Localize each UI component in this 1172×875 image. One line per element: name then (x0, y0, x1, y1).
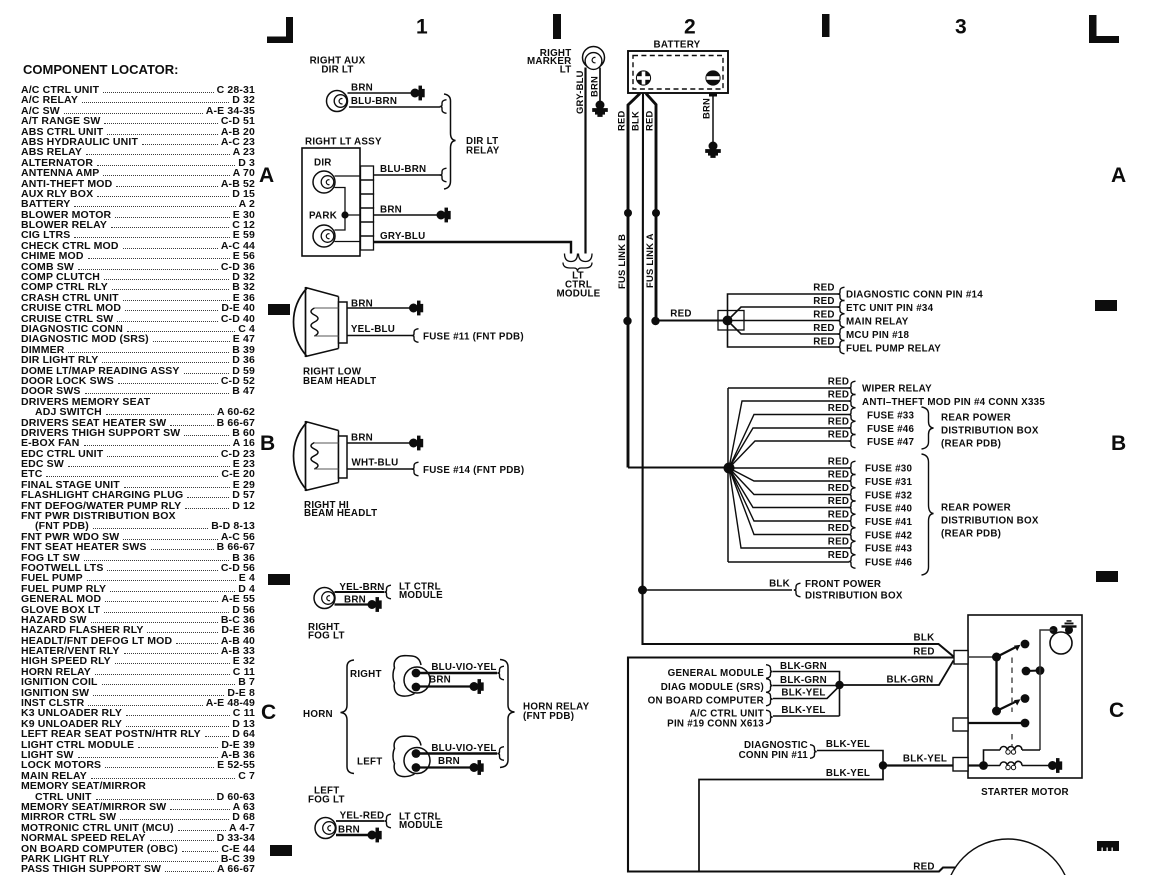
svg-text:STARTER MOTOR: STARTER MOTOR (981, 787, 1069, 798)
grid tick right BC (1096, 571, 1118, 582)
connector strip right lt assy pins (361, 166, 374, 250)
svg-text:WHT-BLU: WHT-BLU (352, 458, 399, 469)
wire BLK from battery to starter (630, 94, 954, 657)
wire YEL-BRN from right fog lt (335, 582, 385, 593)
svg-text:BLK-GRN: BLK-GRN (780, 675, 827, 686)
node dot on fus link B at feed row (623, 317, 631, 325)
svg-text:BRN: BRN (438, 756, 460, 767)
connector hook fuel pump relay (838, 340, 845, 354)
svg-text:BLK-YEL: BLK-YEL (826, 739, 870, 750)
connector hook mcu (838, 327, 845, 341)
wire BLK-GRN main to starter (840, 661, 954, 686)
ground at marker BRN wire end (593, 101, 607, 116)
svg-text:RED: RED (828, 457, 849, 468)
svg-text:MODULE: MODULE (399, 820, 443, 831)
svg-text:BLK: BLK (914, 633, 935, 644)
connector hook BLU-BRN assy end (440, 168, 447, 182)
wire BRN from right aux dir lt (348, 83, 412, 94)
lamp RIGHT MARKER LT label (527, 48, 572, 76)
solenoid coil upper (984, 746, 1041, 766)
bulb PARK in right lt assy (313, 225, 335, 247)
wire RED fusible link A from battery (644, 94, 657, 318)
label RIGHT LOW BEAM HEADLT (303, 367, 376, 388)
wire RED to wiper relay (728, 377, 849, 389)
battery minus terminal (705, 70, 720, 85)
svg-text:REAR POWER: REAR POWER (941, 413, 1011, 424)
label RIGHT HI BEAM HEADLT (304, 500, 377, 519)
label RIGHT FOG LT (308, 622, 345, 642)
svg-text:B: B (1111, 432, 1126, 455)
svg-text:FUS LINK A: FUS LINK A (644, 233, 655, 288)
connector hook front pdb (794, 583, 801, 597)
svg-text:WIPER RELAY: WIPER RELAY (862, 384, 932, 395)
wire internal park bulb to connector (335, 241, 361, 243)
node dot fus link A end (651, 317, 659, 325)
svg-text:REAR POWER: REAR POWER (941, 503, 1011, 514)
svg-text:BLK-GRN: BLK-GRN (887, 675, 934, 686)
svg-text:BRN: BRN (589, 76, 600, 97)
lamp RIGHT FOG LT bulb (314, 588, 335, 609)
ground inside starter top (1062, 620, 1077, 628)
svg-text:FUSE #11 (FNT PDB): FUSE #11 (FNT PDB) (423, 332, 524, 343)
svg-text:FRONT POWER: FRONT POWER (805, 579, 881, 590)
node coil junction (979, 761, 988, 770)
label A/C CTRL UNIT PIN #19 CONN X613 (667, 709, 764, 730)
battery outline (628, 51, 728, 93)
wire BLK-YEL on board computer (773, 688, 838, 699)
wire BRN left horn (420, 756, 470, 768)
svg-text:RED: RED (828, 496, 849, 507)
wire RED to fuse 40 (729, 468, 849, 508)
node front pdb junction on BLK (638, 586, 647, 595)
svg-text:RED: RED (813, 310, 834, 321)
svg-text:FUSE #40: FUSE #40 (865, 504, 912, 515)
bulb DIR in right lt assy (313, 171, 335, 193)
node PARK junction dot (341, 211, 348, 218)
svg-text:RED: RED (644, 110, 655, 131)
wire BLU-BRN from right lt assy (374, 164, 441, 175)
svg-text:FUSE #43: FUSE #43 (865, 544, 912, 555)
svg-text:FUEL PUMP RELAY: FUEL PUMP RELAY (846, 344, 941, 355)
wire BLU-BRN from right aux dir lt (349, 96, 440, 107)
svg-text:BLU-BRN: BLU-BRN (380, 164, 426, 175)
ground at low beam BRN end (410, 301, 423, 314)
connector hook fuse 14 (412, 462, 419, 476)
svg-text:3: 3 (955, 16, 967, 39)
svg-text:FUSE #47: FUSE #47 (867, 437, 914, 448)
grid tick top 2 (822, 14, 830, 37)
wire internal dir bulb to connector (335, 175, 361, 177)
alternator circle bottom (945, 839, 1071, 875)
wire BLK-YEL main to starter (883, 754, 953, 766)
svg-text:ANTI–THEFT MOD PIN #4 CONN X33: ANTI–THEFT MOD PIN #4 CONN X335 (862, 397, 1045, 408)
svg-text:LT: LT (560, 65, 572, 76)
svg-text:GENERAL MODULE: GENERAL MODULE (668, 668, 765, 679)
svg-text:DIR: DIR (314, 158, 332, 169)
connector hook general module (766, 665, 773, 679)
wire RED to fuse 33 (729, 403, 849, 468)
svg-text:RIGHT: RIGHT (350, 669, 382, 680)
label DIAGNOSTIC CONN PIN #11 (739, 740, 809, 761)
connector hook on board computer (766, 692, 773, 706)
svg-text:ETC UNIT PIN #34: ETC UNIT PIN #34 (846, 303, 934, 314)
svg-text:BRN: BRN (380, 205, 402, 216)
brace DIR LT RELAY (444, 94, 500, 189)
wire BLU-VIO-YEL right horn (420, 662, 497, 673)
wire RED to anti-theft mod (729, 390, 849, 469)
solenoid switch arm lower (992, 694, 1029, 715)
wire connector3 into box (968, 764, 980, 766)
svg-text:FUSE #31: FUSE #31 (865, 477, 912, 488)
svg-text:FUS LINK B: FUS LINK B (616, 234, 627, 289)
wire BLK-YEL a/c ctrl unit (773, 705, 840, 716)
wire BLK to front power distribution box (643, 579, 793, 591)
headlight RIGHT HI BEAM symbol (294, 421, 348, 491)
wire RED to fuse 47 (729, 430, 849, 469)
svg-text:BLK-YEL: BLK-YEL (826, 768, 870, 779)
horn RIGHT symbol (393, 656, 430, 697)
wire GRY-BLU from right marker lt (574, 68, 586, 254)
wire RED to fuse 31 (729, 468, 849, 481)
label LT CTRL MODULE right fog (399, 582, 443, 602)
label LEFT FOG LT (308, 786, 345, 806)
svg-text:RED: RED (828, 403, 849, 414)
wire internal park link (335, 188, 361, 231)
connector hook left fog to lt ctrl module (384, 814, 391, 828)
ground right horn (470, 680, 483, 693)
connector hook fuse 11 (412, 329, 419, 343)
svg-text:CONN PIN #11: CONN PIN #11 (739, 750, 809, 761)
svg-text:RED: RED (828, 550, 849, 561)
svg-text:RED: RED (828, 377, 849, 388)
svg-text:BLK-YEL: BLK-YEL (903, 754, 947, 765)
label FRONT POWER DISTRIBUTION BOX (805, 579, 903, 602)
brace horn left (341, 660, 355, 774)
wire BRN from right lt assy (374, 205, 438, 216)
svg-text:(FNT PDB): (FNT PDB) (523, 711, 574, 722)
grid tick top 1 (553, 14, 561, 39)
svg-text:MODULE: MODULE (399, 590, 443, 601)
svg-text:DIR LT: DIR LT (321, 65, 353, 76)
node main relay fan junction (723, 316, 733, 326)
wire BLK-GRN diag module (773, 675, 838, 686)
lamp RIGHT AUX DIR LT label (310, 56, 366, 76)
wire RED to diagnostic conn pin 14 (728, 283, 839, 321)
wire RED to fuse 43 (729, 468, 849, 548)
svg-text:RED: RED (828, 523, 849, 534)
svg-text:GRY-BLU: GRY-BLU (380, 231, 425, 242)
svg-text:MCU PIN #18: MCU PIN #18 (846, 330, 909, 341)
horn LEFT symbol (393, 736, 430, 777)
lamp RIGHT AUX DIR LT bulb (327, 91, 348, 112)
wire RED to fuse 46b (728, 550, 849, 562)
node fuse fan junction (724, 463, 735, 474)
wire RED to mcu pin 18 (728, 321, 839, 335)
node blk-yel junction (879, 761, 887, 769)
starter connector 2 (953, 718, 968, 731)
svg-text:FUSE #42: FUSE #42 (865, 531, 912, 542)
svg-text:RED: RED (828, 470, 849, 481)
svg-text:FOG LT: FOG LT (308, 631, 345, 642)
ground left horn (470, 761, 483, 774)
ground at right fog BRN end (368, 598, 381, 611)
wire RED to fuse 42 (729, 468, 849, 535)
svg-text:PARK: PARK (309, 211, 337, 222)
svg-text:RED: RED (616, 110, 627, 131)
lamp RIGHT MARKER LT bulb (583, 47, 605, 70)
connector hook diag module (766, 679, 773, 693)
wire YEL-RED from left fog lt (336, 811, 384, 822)
contact pair middle (1022, 666, 1045, 675)
ground at left fog BRN end (368, 828, 381, 841)
ground at assy BRN wire end (437, 208, 450, 221)
connector hook diagnostic conn pin 11 (810, 745, 817, 759)
lamp LEFT FOG LT bulb (315, 818, 336, 839)
svg-text:LEFT: LEFT (357, 757, 383, 768)
svg-text:MODULE: MODULE (557, 289, 601, 300)
headlight RIGHT LOW BEAM symbol (294, 287, 348, 357)
wire BRN right horn (420, 675, 470, 687)
box RIGHT LT ASSY outline (302, 148, 360, 256)
ground battery negative (706, 142, 720, 157)
svg-text:RIGHT LT ASSY: RIGHT LT ASSY (305, 137, 382, 148)
connector hook a/c ctrl unit (766, 710, 773, 724)
svg-text:FUSE #33: FUSE #33 (867, 411, 914, 422)
svg-text:BRN: BRN (351, 83, 373, 94)
motor terminal dots (1050, 626, 1074, 634)
svg-text:ON BOARD COMPUTER: ON BOARD COMPUTER (648, 696, 764, 707)
svg-text:YEL-BLU: YEL-BLU (351, 324, 395, 335)
svg-text:DISTRIBUTION BOX: DISTRIBUTION BOX (941, 516, 1039, 527)
wire RED to etc unit pin 34 (728, 296, 839, 321)
grid tick left AB (268, 304, 290, 315)
svg-text:RED: RED (813, 337, 834, 348)
wire bus vertical fuse fan (727, 388, 729, 562)
svg-text:BLK-YEL: BLK-YEL (781, 688, 825, 699)
svg-text:YEL-RED: YEL-RED (340, 811, 385, 822)
svg-text:FUSE #32: FUSE #32 (865, 491, 912, 502)
wire connector1 to solenoid pivot (968, 656, 994, 658)
starter motor circle (1050, 632, 1072, 654)
svg-text:BLK: BLK (769, 579, 790, 590)
svg-text:BATTERY: BATTERY (654, 40, 701, 51)
svg-text:BLU-BRN: BLU-BRN (351, 96, 397, 107)
wire RED to fuse 46a (729, 417, 849, 469)
wire RED to main relay (728, 310, 839, 321)
solenoid switch arm upper (992, 640, 1029, 662)
wire BRN from right low beam (347, 299, 410, 310)
wire RED to fuel pump relay (728, 321, 839, 348)
connector hook main relay (838, 314, 845, 328)
svg-text:BLK-YEL: BLK-YEL (781, 705, 825, 716)
wire BRN from left fog lt (336, 825, 368, 836)
svg-text:B: B (260, 432, 275, 455)
svg-text:DIAG MODULE (SRS): DIAG MODULE (SRS) (661, 682, 764, 693)
wire BLU-VIO-YEL left horn (420, 743, 497, 754)
grid tick left bottom (270, 845, 292, 856)
wire BLK-YEL lower branch (699, 766, 883, 872)
grid corner mark top-right (1089, 15, 1119, 43)
connector hook etc unit (838, 300, 845, 314)
svg-text:PIN #19 CONN X613: PIN #19 CONN X613 (667, 719, 764, 730)
connector hook right horn relay (497, 666, 504, 680)
svg-text:RED: RED (913, 862, 934, 873)
svg-text:BLK-GRN: BLK-GRN (780, 661, 827, 672)
svg-text:1: 1 (416, 16, 428, 39)
wire motor to solenoid coil (1040, 630, 1054, 750)
starter connector 3 (953, 758, 968, 772)
label LT CTRL MODULE left fog (399, 812, 443, 832)
svg-text:BEAM HEADLT: BEAM HEADLT (304, 508, 377, 519)
svg-text:DIAGNOSTIC CONN PIN #14: DIAGNOSTIC CONN PIN #14 (846, 290, 983, 301)
svg-text:RED: RED (813, 283, 834, 294)
wire BRN from right hi beam (347, 433, 410, 444)
wire RED fusible link B from battery (616, 94, 641, 468)
svg-text:DISTRIBUTION BOX: DISTRIBUTION BOX (941, 426, 1039, 437)
svg-text:BLU-VIO-YEL: BLU-VIO-YEL (431, 662, 496, 673)
battery inner dashed outline (633, 56, 723, 90)
grid tick left BC (268, 574, 290, 585)
svg-text:HORN: HORN (303, 709, 333, 720)
wire BRN from right fog lt (335, 595, 369, 606)
node blk-grn bus junction (835, 681, 843, 689)
wire BRN from right marker lt (589, 68, 601, 102)
connector hook diagnostic conn pin 14 (838, 287, 845, 301)
svg-text:RED: RED (913, 647, 934, 658)
svg-text:RELAY: RELAY (466, 146, 500, 157)
node fusible link A dot (652, 209, 660, 217)
wire BRN battery to ground (701, 97, 714, 143)
label LT CTRL MODULE (557, 271, 601, 300)
brace rear pdb group 2 (922, 454, 1039, 575)
wire WHT-BLU from right hi beam (347, 458, 412, 470)
wire GRY-BLU from right lt assy to lt ctrl module (374, 231, 572, 254)
ground at right aux BRN wire end (411, 86, 424, 99)
grid tick right AB (1095, 300, 1117, 311)
wire YEL-BLU from right low beam (347, 324, 412, 336)
svg-text:RED: RED (828, 537, 849, 548)
wire RED to fuse 32 (729, 468, 849, 495)
svg-text:DISTRIBUTION BOX: DISTRIBUTION BOX (805, 591, 903, 602)
grid corner mark top-left (267, 17, 293, 43)
svg-text:BEAM HEADLT: BEAM HEADLT (303, 376, 376, 387)
svg-text:RED: RED (828, 483, 849, 494)
svg-text:A: A (259, 164, 274, 187)
svg-text:BRN: BRN (351, 433, 373, 444)
svg-text:FUSE #41: FUSE #41 (865, 517, 912, 528)
solenoid coil lower (987, 761, 1049, 769)
svg-text:FUSE #14 (FNT PDB): FUSE #14 (FNT PDB) (423, 465, 524, 476)
wire BLK-GRN general module (773, 661, 840, 716)
svg-text:FUSE #30: FUSE #30 (865, 464, 912, 475)
connector hook right fog to lt ctrl module (384, 585, 391, 599)
node fusible link B dot (624, 209, 632, 217)
svg-text:(REAR PDB): (REAR PDB) (941, 439, 1001, 450)
svg-text:RED: RED (828, 510, 849, 521)
solenoid actuator dashed line (1011, 658, 1013, 747)
svg-text:(REAR PDB): (REAR PDB) (941, 529, 1001, 540)
svg-text:C: C (261, 701, 276, 724)
brace rear pdb group 1 (922, 407, 1039, 450)
svg-text:GRY-BLU: GRY-BLU (574, 70, 585, 114)
connector hook BLU-BRN aux end (440, 100, 447, 114)
svg-text:FUSE #46: FUSE #46 (865, 558, 912, 569)
wire RED to fuse 41 (729, 468, 849, 521)
svg-text:RED: RED (813, 323, 834, 334)
wire RED to fuse 30 (729, 457, 849, 469)
battery minus stub (709, 93, 717, 97)
connector hook left horn relay (497, 747, 504, 761)
svg-text:RED: RED (828, 390, 849, 401)
svg-text:MAIN RELAY: MAIN RELAY (846, 317, 909, 328)
svg-text:FOG LT: FOG LT (308, 795, 345, 806)
svg-text:RED: RED (670, 309, 691, 320)
connector box main relay fan (718, 311, 744, 331)
coil end terminal (1049, 759, 1062, 772)
svg-text:FUSE #46: FUSE #46 (867, 424, 914, 435)
brace horn relay right (500, 660, 590, 768)
wire pivot link vertical (995, 657, 997, 711)
svg-text:BRN: BRN (701, 98, 712, 119)
svg-text:BRN: BRN (429, 675, 451, 686)
starter motor box (968, 615, 1082, 778)
svg-text:BLK: BLK (630, 111, 641, 131)
starter connector 1 (954, 651, 968, 665)
wire BLK-YEL diagnostic conn upper (817, 739, 883, 766)
wire RED feed to main relay fan (656, 309, 726, 321)
connector LT CTRL MODULE double hooks (563, 254, 592, 272)
ground at hi beam BRN end (410, 436, 423, 449)
svg-text:RED: RED (813, 296, 834, 307)
contact connector2 (968, 719, 1029, 728)
svg-text:A: A (1111, 164, 1126, 187)
battery plus terminal (636, 70, 651, 85)
svg-text:RED: RED (828, 430, 849, 441)
svg-text:2: 2 (684, 16, 696, 39)
svg-text:RED: RED (828, 417, 849, 428)
wire RED feed to fuse fan (628, 466, 725, 468)
svg-text:C: C (1109, 699, 1124, 722)
grid tick right bottom (1097, 841, 1119, 851)
wire RED main to starter and alternator (628, 647, 956, 872)
